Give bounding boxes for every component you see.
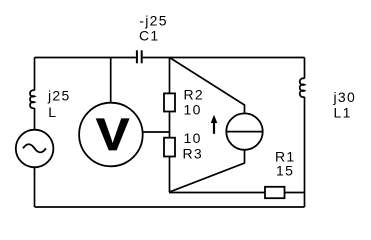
inductor L (30, 90, 35, 108)
wire right vertical bottom (304, 97, 306, 207)
wire bottom diagonal from current source (169, 150, 245, 192)
resistor R1 labels (275, 149, 296, 179)
inductor L1 labels (333, 89, 357, 120)
capacitor C1 labels (139, 13, 168, 44)
wire R1 branch right (285, 192, 305, 194)
svg-text:V: V (96, 110, 129, 161)
svg-text:10: 10 (184, 130, 202, 146)
svg-text:R3: R3 (183, 146, 204, 162)
wire top left segment (35, 57, 136, 59)
ac source (16, 130, 54, 168)
svg-text:-j25: -j25 (139, 13, 168, 29)
svg-text:R2: R2 (184, 87, 205, 103)
resistor R2 labels (184, 87, 205, 118)
wire R1 branch left (169, 192, 265, 194)
svg-text:L: L (48, 104, 57, 120)
wire voltmeter top (110, 58, 112, 103)
inductor L1 (300, 78, 305, 97)
svg-text:j30: j30 (333, 89, 357, 105)
wire voltmeter right (143, 131, 170, 133)
inductor L labels (47, 87, 71, 120)
svg-text:C1: C1 (139, 28, 160, 44)
resistor R3 labels (183, 130, 204, 162)
wire ac source to bottom (34, 167, 36, 207)
svg-text:15: 15 (276, 163, 294, 179)
resistor R2 (164, 93, 175, 111)
resistor R1 (265, 187, 285, 198)
resistor R3 (164, 138, 175, 157)
wire inductor to ac source (34, 108, 36, 130)
svg-text:j25: j25 (47, 87, 71, 103)
capacitor C1 (137, 50, 142, 63)
svg-text:10: 10 (184, 102, 202, 118)
svg-text:L1: L1 (334, 104, 352, 120)
voltmeter V circle (79, 103, 143, 167)
wire right vertical top (304, 58, 306, 79)
wire top right segment (143, 57, 305, 59)
wire top diagonal to current source (170, 58, 245, 114)
wire bottom (35, 206, 305, 208)
wire mid vertical (169, 58, 171, 193)
wire left vertical top (34, 58, 36, 91)
current source SRC1 (226, 113, 262, 149)
current source arrow (211, 115, 218, 134)
